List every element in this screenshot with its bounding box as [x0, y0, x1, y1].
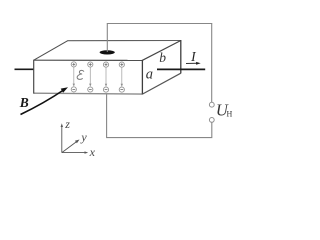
E field script label [77, 70, 84, 79]
x axis arrowhead [85, 151, 89, 153]
sample box back right vertical edge [180, 40, 182, 73]
svg-text:z: z [64, 117, 70, 131]
sample box front face left edge [33, 60, 35, 94]
sample box top face right diagonal edge [142, 41, 180, 61]
negative charge row (bottom, circled minus) [71, 87, 124, 92]
svg-text:b: b [159, 50, 166, 65]
current I arrow [186, 62, 198, 64]
top contact ellipse [100, 50, 115, 54]
sample box front face right edge [141, 60, 143, 95]
x axis [62, 152, 86, 154]
sample box top face back edge [67, 40, 180, 42]
sample box end face bottom diagonal edge [142, 73, 180, 94]
y axis [62, 141, 77, 152]
z axis arrowhead [61, 123, 63, 127]
z axis [61, 127, 63, 153]
wire top horizontal [107, 23, 212, 25]
wire right vertical down to terminal [211, 24, 213, 103]
svg-text:B: B [19, 95, 29, 110]
svg-text:x: x [89, 145, 96, 159]
field line arrowheads [73, 84, 123, 87]
sample box top face left diagonal edge [34, 41, 68, 61]
field line 1 [74, 67, 122, 84]
wire left current lead [15, 68, 34, 70]
coordinate axes [62, 127, 86, 153]
y axis arrowhead [75, 140, 80, 144]
wire from top contact up [106, 24, 108, 53]
svg-text:a: a [146, 67, 153, 83]
terminal lower [209, 118, 214, 123]
terminal upper [209, 102, 214, 107]
svg-text:y: y [80, 130, 87, 144]
svg-text:I: I [190, 49, 197, 64]
magnetic field B arrow [21, 89, 65, 114]
wire from lower terminal down and left along bottom [107, 94, 212, 137]
positive charge row (top, circled plus) [71, 62, 124, 67]
sample box front face top edge [34, 59, 143, 61]
wire right current lead (thick) [157, 68, 205, 70]
svg-text:H: H [227, 110, 233, 119]
sample box front face bottom edge [34, 92, 143, 95]
